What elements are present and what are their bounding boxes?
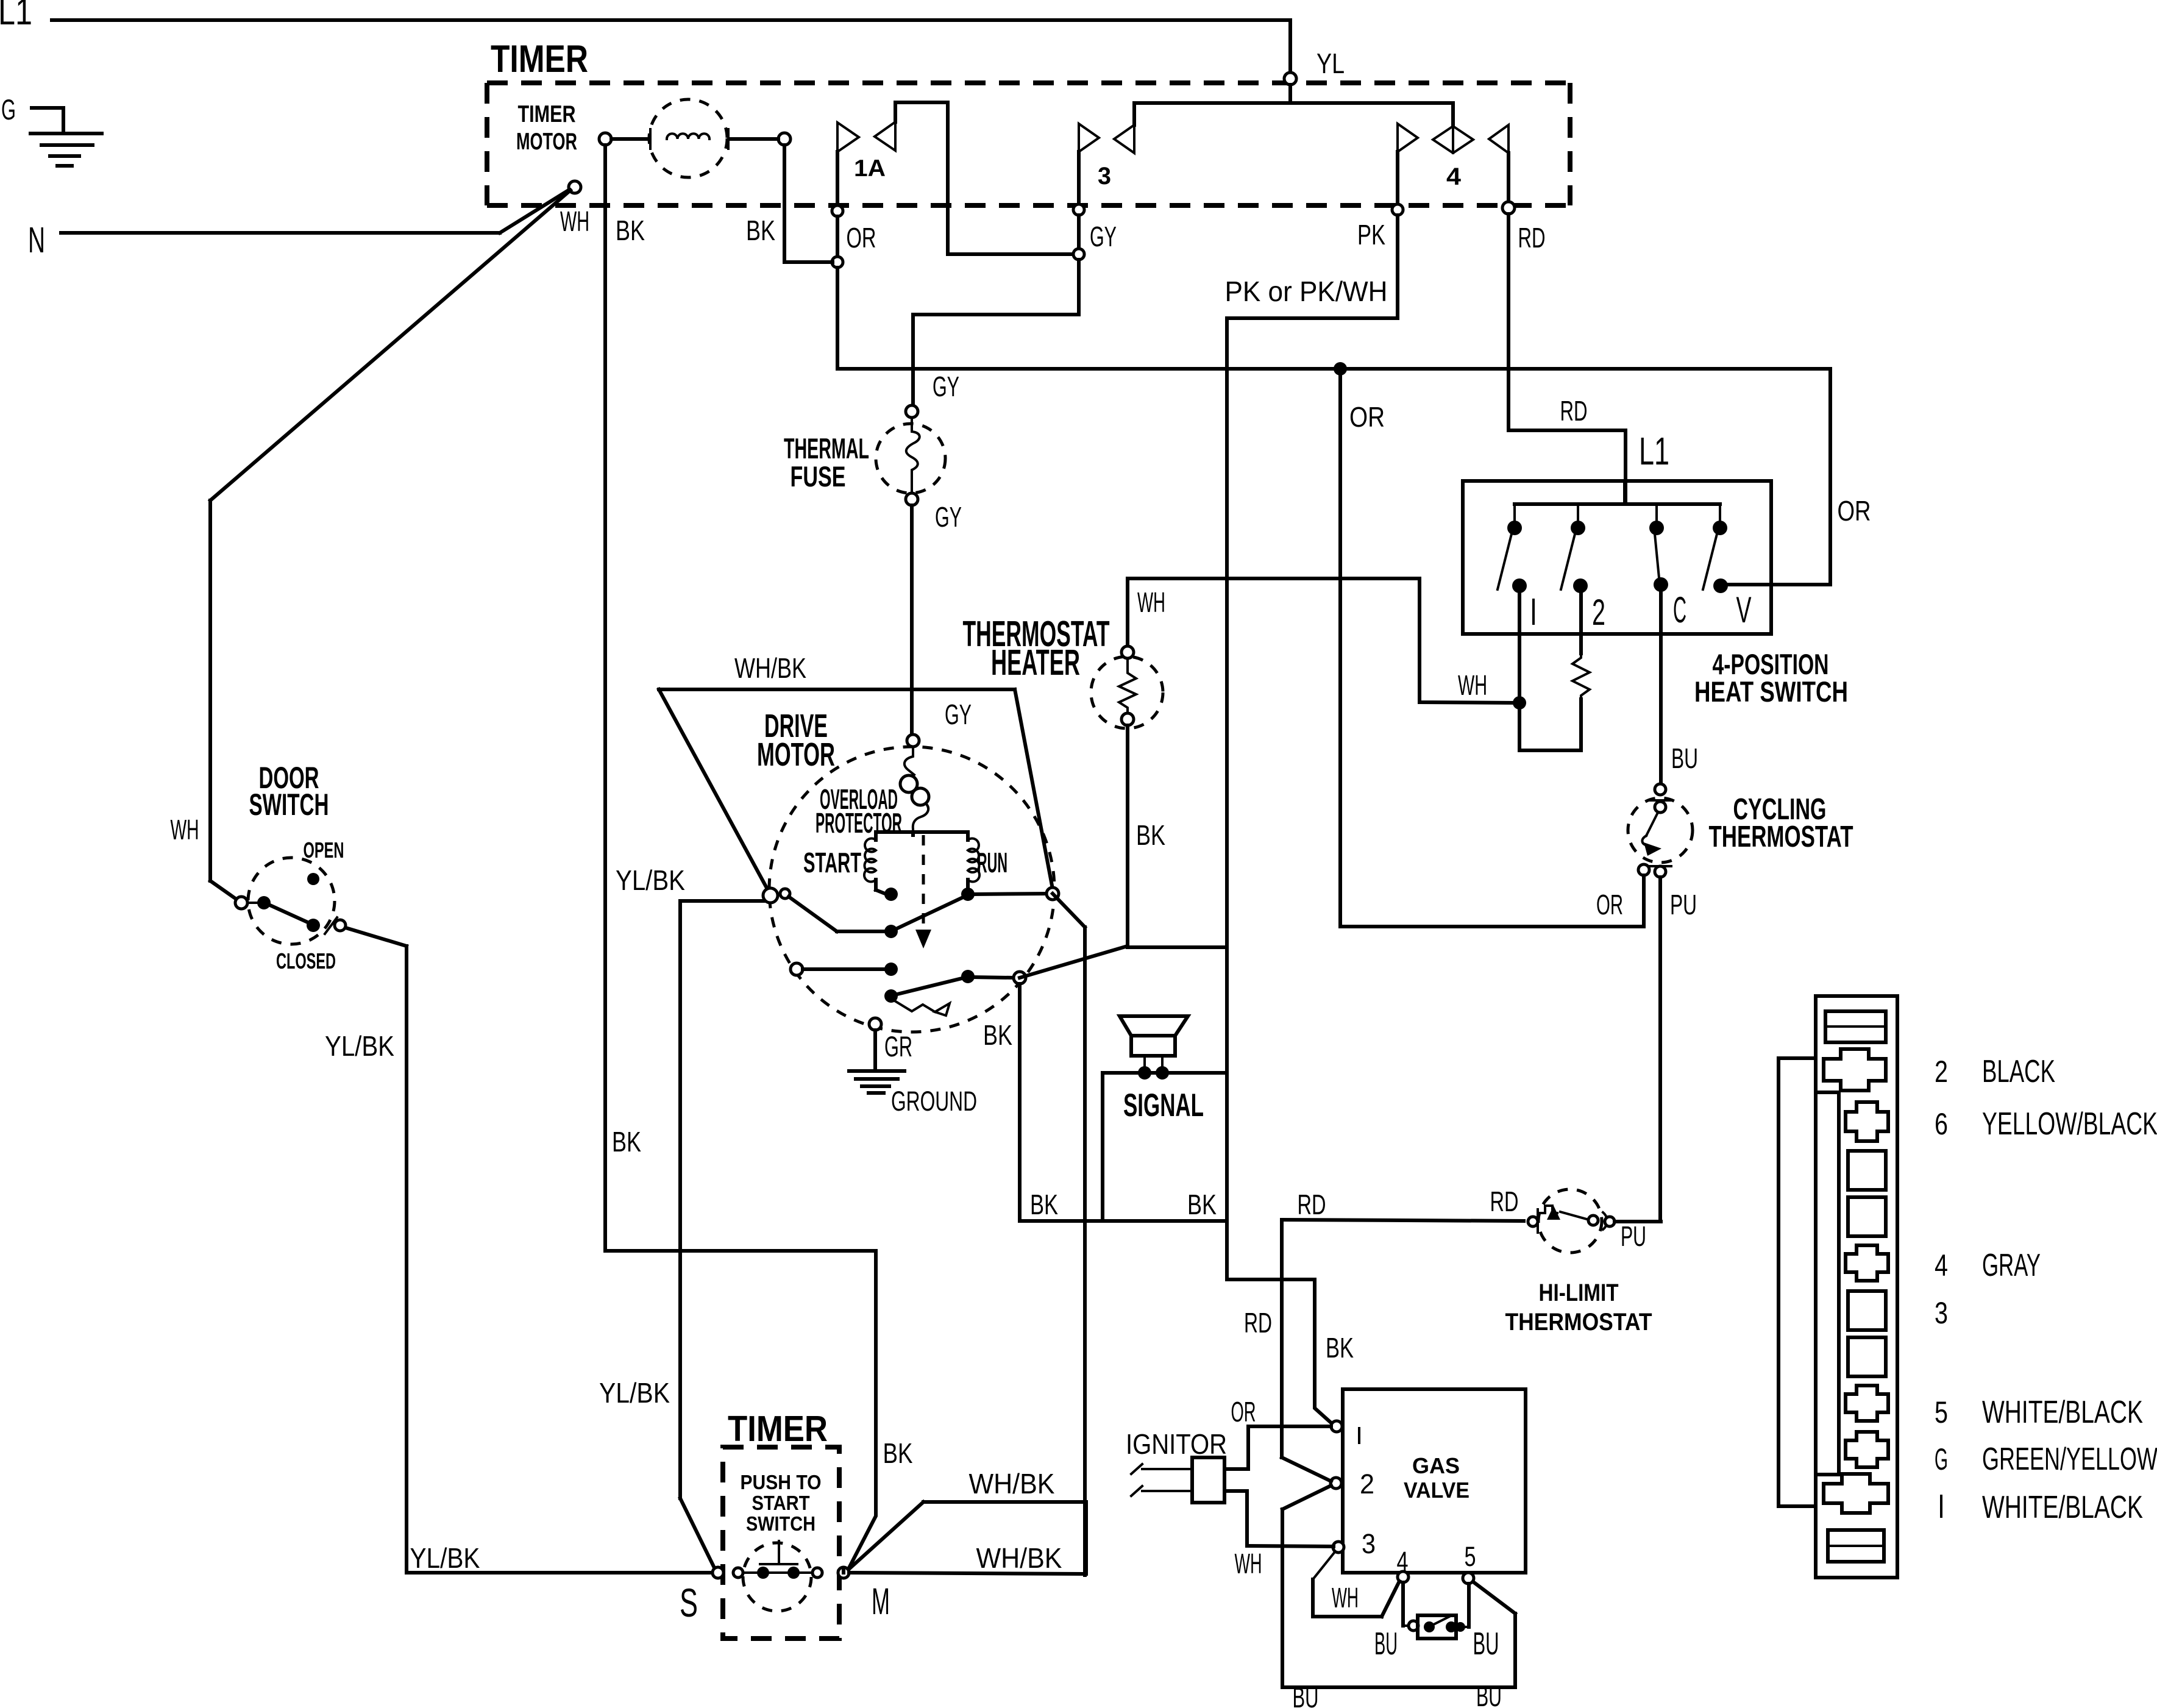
svg-text:YL/BK: YL/BK	[616, 864, 685, 896]
svg-text:3: 3	[1362, 1528, 1376, 1559]
svg-text:WH/BK: WH/BK	[969, 1468, 1055, 1500]
svg-text:2: 2	[1935, 1055, 1948, 1089]
svg-text:WH: WH	[171, 814, 199, 845]
svg-text:RD: RD	[1244, 1307, 1272, 1339]
svg-text:RD: RD	[1560, 395, 1588, 427]
svg-text:GY: GY	[935, 501, 962, 533]
svg-text:WH/BK: WH/BK	[976, 1542, 1062, 1574]
svg-text:C: C	[1673, 589, 1686, 630]
svg-text:V: V	[1736, 589, 1752, 630]
svg-text:3: 3	[1935, 1296, 1948, 1330]
svg-text:HI-LIMIT: HI-LIMIT	[1539, 1279, 1619, 1306]
svg-text:BU: BU	[1374, 1626, 1398, 1662]
svg-text:RUN: RUN	[977, 847, 1007, 878]
svg-text:WH: WH	[1458, 669, 1487, 701]
svg-text:TIMER: TIMER	[728, 1409, 828, 1449]
svg-text:RD: RD	[1490, 1186, 1519, 1217]
svg-text:3: 3	[1098, 163, 1111, 190]
svg-text:GY: GY	[933, 371, 959, 402]
svg-text:OR: OR	[1231, 1396, 1256, 1428]
svg-text:THERMOSTAT: THERMOSTAT	[1505, 1309, 1652, 1336]
svg-text:PUSH TO: PUSH TO	[741, 1471, 822, 1493]
svg-text:BU: BU	[1473, 1626, 1499, 1662]
svg-text:START: START	[803, 847, 861, 878]
svg-text:MOTOR: MOTOR	[757, 736, 835, 773]
svg-text:OR: OR	[847, 222, 876, 254]
svg-text:GR: GR	[884, 1030, 912, 1062]
svg-text:RD: RD	[1298, 1189, 1326, 1220]
svg-text:OR: OR	[1596, 889, 1623, 920]
svg-text:SWITCH: SWITCH	[746, 1512, 816, 1535]
svg-text:YL/BK: YL/BK	[599, 1377, 670, 1409]
svg-text:4: 4	[1446, 163, 1462, 190]
svg-text:5: 5	[1465, 1541, 1476, 1572]
svg-text:GY: GY	[945, 699, 972, 730]
svg-text:M: M	[872, 1581, 890, 1622]
svg-text:THERMOSTAT: THERMOSTAT	[1709, 820, 1853, 853]
svg-text:WH: WH	[560, 205, 589, 237]
svg-text:2: 2	[1592, 592, 1605, 633]
svg-text:G: G	[1935, 1442, 1948, 1476]
svg-text:GAS: GAS	[1412, 1453, 1460, 1478]
svg-text:L1: L1	[1639, 429, 1669, 473]
svg-text:WH: WH	[1332, 1582, 1359, 1614]
svg-text:2: 2	[1360, 1468, 1374, 1500]
svg-text:IGNITOR: IGNITOR	[1126, 1428, 1227, 1460]
svg-text:VALVE: VALVE	[1404, 1478, 1469, 1503]
svg-text:GY: GY	[1090, 221, 1117, 252]
svg-text:YL: YL	[1317, 48, 1345, 79]
svg-text:BK: BK	[1326, 1332, 1354, 1364]
svg-text:GREEN/YELLOW: GREEN/YELLOW	[1982, 1442, 2157, 1477]
svg-text:WH/BK: WH/BK	[734, 652, 806, 684]
svg-text:PK: PK	[1357, 219, 1385, 251]
svg-text:N: N	[28, 220, 45, 260]
svg-text:HEAT SWITCH: HEAT SWITCH	[1694, 675, 1848, 708]
svg-text:BK: BK	[1030, 1189, 1058, 1220]
svg-text:WHITE/BLACK: WHITE/BLACK	[1982, 1395, 2143, 1430]
svg-text:BK: BK	[612, 1126, 641, 1158]
svg-text:1A: 1A	[854, 155, 886, 182]
svg-text:5: 5	[1935, 1395, 1948, 1429]
svg-text:BK: BK	[1187, 1189, 1217, 1220]
svg-text:PU: PU	[1670, 889, 1697, 920]
svg-text:MOTOR: MOTOR	[516, 129, 577, 155]
svg-text:4: 4	[1397, 1546, 1409, 1577]
svg-text:WH: WH	[1137, 586, 1165, 618]
svg-text:YELLOW/BLACK: YELLOW/BLACK	[1982, 1106, 2157, 1142]
svg-text:BU: BU	[1476, 1680, 1502, 1708]
svg-text:PK or PK/WH: PK or PK/WH	[1225, 276, 1388, 307]
svg-text:START: START	[752, 1492, 810, 1514]
svg-text:TIMER: TIMER	[491, 38, 588, 80]
svg-text:WH: WH	[1235, 1548, 1262, 1579]
svg-text:GRAY: GRAY	[1982, 1248, 2041, 1283]
svg-text:SIGNAL: SIGNAL	[1123, 1087, 1204, 1123]
svg-text:OPEN: OPEN	[304, 838, 344, 863]
svg-text:CLOSED: CLOSED	[276, 948, 336, 973]
svg-text:OR: OR	[1349, 401, 1385, 433]
svg-text:BK: BK	[883, 1437, 913, 1469]
svg-text:FUSE: FUSE	[791, 460, 846, 493]
svg-text:RD: RD	[1518, 222, 1546, 254]
svg-text:BLACK: BLACK	[1982, 1054, 2055, 1089]
svg-text:L1: L1	[0, 0, 32, 32]
svg-text:G: G	[1, 93, 16, 126]
svg-text:GROUND: GROUND	[891, 1086, 977, 1117]
svg-text:BK: BK	[983, 1019, 1012, 1051]
svg-text:S: S	[680, 1580, 698, 1625]
svg-text:TIMER: TIMER	[518, 101, 576, 127]
svg-text:PU: PU	[1621, 1220, 1646, 1252]
svg-text:BK: BK	[1136, 819, 1165, 851]
svg-text:SWITCH: SWITCH	[249, 788, 329, 822]
svg-text:WHITE/BLACK: WHITE/BLACK	[1982, 1490, 2143, 1525]
svg-text:PROTECTOR: PROTECTOR	[816, 807, 902, 839]
svg-text:YL/BK: YL/BK	[325, 1030, 394, 1062]
svg-text:BK: BK	[746, 215, 775, 246]
svg-text:OR: OR	[1838, 495, 1871, 527]
svg-text:HEATER: HEATER	[991, 642, 1080, 683]
svg-text:6: 6	[1935, 1107, 1948, 1141]
svg-text:BK: BK	[616, 215, 645, 246]
svg-text:YL/BK: YL/BK	[410, 1542, 480, 1574]
svg-text:BU: BU	[1671, 742, 1698, 774]
svg-text:BU: BU	[1293, 1681, 1319, 1708]
svg-text:4: 4	[1935, 1248, 1948, 1283]
